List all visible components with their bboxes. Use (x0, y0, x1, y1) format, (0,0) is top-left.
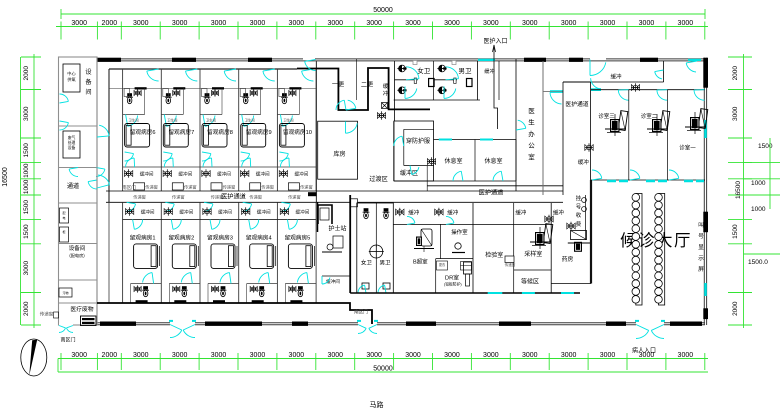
upper cell 6 buffer door arcs (125, 154, 134, 161)
upper cell 8 fan symbol (204, 171, 209, 176)
bottom dimension chain line (58, 358, 708, 360)
svg-text:休息室: 休息室 (484, 157, 502, 165)
doctor office door arc (518, 120, 526, 128)
lower ward cell 4 partition wall (238, 202, 240, 303)
upper ward cell 9 partition walls (238, 69, 240, 191)
bed ward 3 (211, 244, 235, 269)
svg-text:缓冲: 缓冲 (484, 67, 494, 75)
svg-text:3000: 3000 (327, 352, 343, 359)
rest room door arcs (453, 171, 461, 181)
svg-text:3000: 3000 (133, 352, 149, 359)
upper cell 8 top black dash (212, 87, 224, 89)
central oxygen supply box (63, 64, 80, 92)
svg-text:3000: 3000 (639, 20, 655, 27)
power cabinet boxes (60, 208, 69, 223)
svg-text:传递窗: 传递窗 (145, 184, 158, 191)
svg-text:留观病房2: 留观病房2 (168, 234, 194, 242)
bottom exterior wall double line (97, 322, 705, 324)
svg-text:诊室三: 诊室三 (598, 112, 615, 120)
svg-text:传递窗: 传递窗 (505, 262, 516, 267)
medical corridor lower line (106, 201, 563, 203)
svg-text:卫生间: 卫生间 (206, 118, 217, 123)
bottom double door 2 leaves (358, 328, 366, 333)
ward block left inner wall (108, 69, 110, 202)
svg-text:供氧: 供氧 (67, 76, 76, 83)
ppe room inner walls (404, 128, 434, 130)
upper ward cell 6 partition walls (122, 69, 124, 191)
svg-text:卫生间: 卫生间 (283, 118, 294, 123)
svg-text:间: 间 (85, 88, 91, 96)
upper cell 8 toilet fixture (213, 91, 217, 95)
svg-text:缓冲间: 缓冲间 (217, 171, 231, 178)
svg-text:3000: 3000 (327, 20, 343, 27)
upper cell 7 toilet door arc (166, 116, 176, 127)
rest rooms top wall (434, 139, 517, 141)
svg-text:3000: 3000 (522, 352, 538, 359)
svg-text:2000: 2000 (23, 66, 30, 81)
svg-text:设备: 设备 (68, 145, 76, 150)
lower cell 2 ward door arc (173, 220, 181, 230)
svg-text:3000: 3000 (172, 20, 188, 27)
upper cell 8 entry door arc (224, 71, 236, 81)
bottom overall dimension line 50000 (58, 371, 708, 373)
waiting hall chairs column 1 seats (632, 194, 640, 202)
clinic rooms top door arcs (618, 90, 629, 100)
svg-text:传递窗: 传递窗 (249, 194, 262, 201)
svg-text:缓冲: 缓冲 (610, 72, 622, 80)
svg-text:1500.0: 1500.0 (748, 259, 768, 266)
upper cell 7 sink (163, 89, 169, 97)
buffer door arcs diag (407, 216, 415, 223)
medical corridor upper line (106, 190, 563, 192)
svg-text:室: 室 (528, 152, 535, 161)
svg-text:叫: 叫 (698, 221, 704, 229)
transition zone right wall (393, 121, 395, 181)
operation room items (455, 243, 461, 249)
upper ward cell 10 partition walls (276, 69, 278, 191)
lower cell 4 buffer door arcs (243, 204, 252, 211)
svg-text:号: 号 (576, 204, 582, 211)
waiting hall left wall thick (590, 180, 592, 284)
svg-text:3000: 3000 (366, 20, 382, 27)
ppe door arcs (394, 136, 402, 146)
fan below step wall (379, 113, 384, 118)
wc stall lines (395, 79, 418, 81)
svg-text:(铅板防护): (铅板防护) (444, 282, 462, 287)
upper cell 7 transfer window box (172, 183, 183, 190)
svg-text:休息室: 休息室 (444, 157, 462, 165)
svg-text:1000: 1000 (751, 180, 766, 187)
upper cell 7 buffer partition (161, 166, 200, 168)
left wall door arc lower (98, 175, 110, 185)
upper cell 6 entry door arc (147, 71, 159, 81)
svg-text:3000: 3000 (444, 20, 460, 27)
svg-text:处理: 处理 (68, 140, 76, 145)
upper cell 7 fan symbol (165, 171, 170, 176)
wc door arcs upper (406, 67, 419, 79)
upper cell 9 top black dash (251, 87, 263, 89)
ward block right wall (315, 61, 317, 202)
patient wc box (357, 203, 394, 293)
upper cell 9 entry door arc (263, 71, 275, 81)
exam station clinic 3 (618, 111, 628, 131)
svg-text:传递窗: 传递窗 (184, 184, 197, 191)
svg-text:更衣: 更衣 (439, 262, 446, 267)
upper cell 10 top black dash (289, 87, 301, 89)
svg-text:冲: 冲 (383, 90, 389, 98)
svg-text:配: 配 (62, 210, 65, 215)
lower ward cell 5 partition wall (276, 202, 278, 303)
svg-text:二更: 二更 (361, 82, 373, 89)
upper cell 10 buffer partition (277, 166, 316, 168)
fans diag buffer (398, 210, 403, 215)
last lower cell right partition (315, 202, 317, 303)
right dimension chain line (743, 54, 745, 328)
svg-text:3000: 3000 (289, 352, 305, 359)
svg-text:3000: 3000 (23, 261, 30, 276)
exam station clinic 2 (660, 111, 670, 131)
svg-text:3000: 3000 (561, 20, 577, 27)
dr room left wall (435, 259, 437, 293)
upper cell 10 transfer window box (288, 183, 299, 190)
svg-text:留观病房5: 留观病房5 (284, 234, 310, 242)
svg-text:3000: 3000 (133, 20, 149, 27)
storeroom walls (318, 121, 358, 179)
svg-text:3000: 3000 (23, 106, 30, 121)
svg-text:办: 办 (528, 129, 535, 138)
bottom wall pier fills (100, 322, 136, 326)
clinic corridor door leaf (591, 88, 601, 90)
svg-text:缓冲间: 缓冲间 (141, 209, 155, 216)
annex south door (59, 323, 73, 326)
lower ward cell 2 partition wall (160, 202, 162, 303)
lower cell 4 ward door arc (250, 220, 258, 230)
upper cell 10 toilet partition (277, 114, 299, 116)
svg-text:3000: 3000 (561, 352, 577, 359)
lower cell 5 bottom black dash (290, 300, 302, 302)
svg-text:缓冲: 缓冲 (447, 209, 459, 217)
thin wall right of wards (356, 59, 358, 100)
svg-text:缓冲间: 缓冲间 (218, 209, 232, 216)
bed ward 2 (172, 244, 196, 269)
svg-text:3000: 3000 (211, 352, 227, 359)
corridor black pier at ward block corner (308, 192, 317, 196)
svg-text:公: 公 (528, 143, 535, 150)
svg-text:中心: 中心 (67, 70, 76, 77)
lower cell 5 ward door arc (289, 220, 297, 230)
clinic partition x628 (628, 90, 630, 180)
medical waste container (81, 316, 97, 326)
svg-text:缓冲: 缓冲 (553, 209, 565, 217)
svg-text:缓冲间: 缓冲间 (179, 209, 193, 216)
upper cell 6 transfer window box (134, 183, 145, 190)
svg-text:50000: 50000 (373, 366, 393, 373)
svg-text:1500: 1500 (23, 200, 30, 215)
svg-text:废气: 废气 (68, 135, 76, 140)
exam station clinic 1 (698, 109, 708, 129)
lower cell 1 ward door arc (134, 220, 142, 230)
lower cell 5 toilet partition (285, 283, 316, 285)
upper cell 9 buffer door arcs (241, 154, 250, 161)
svg-text:留观病房8: 留观病房8 (207, 128, 233, 136)
svg-text:留观病房4: 留观病房4 (246, 234, 272, 242)
bed ward 8 (202, 124, 227, 148)
b-ultrasound room wall (440, 224, 442, 258)
main block left wall (96, 57, 98, 324)
left wall door arc upper (99, 125, 109, 136)
upper cell 10 buffer door arcs (279, 154, 288, 161)
lower cell 5 toilet fixture (290, 287, 294, 291)
right wall window cyan dash (704, 120, 707, 138)
clinic partition x590 (590, 82, 592, 180)
bed ward 2 side table (197, 246, 199, 266)
svg-text:医护通道: 医护通道 (479, 189, 504, 197)
upper cell 9 toilet partition (239, 114, 261, 116)
lower cell 1 buffer partition (123, 219, 162, 221)
ppe room outer box (394, 121, 434, 181)
upper cell 7 top black dash (173, 87, 185, 89)
top exterior wall double line (97, 58, 705, 60)
upper cell 7 entry door arc (186, 71, 198, 81)
ward block inner top line (109, 68, 297, 70)
waiting hall chairs column 2 seats (655, 194, 663, 202)
lower cell 4 buffer partition (239, 219, 278, 221)
upper cell 10 sink (279, 89, 285, 97)
svg-text:通道: 通道 (67, 182, 79, 190)
lower cell 2 bottom black dash (174, 300, 186, 302)
svg-text:留观病房6: 留观病房6 (130, 128, 156, 136)
second equipment box (63, 131, 80, 158)
svg-text:医护通道: 医护通道 (565, 100, 588, 108)
staff wc area bottom wall (394, 99, 480, 101)
small x-box fan at buffer (382, 103, 388, 109)
corridor buffer cross wall (543, 91, 563, 93)
svg-text:1000: 1000 (23, 163, 30, 178)
top overall dimension line 50000 (61, 13, 705, 15)
annex double door to passage (69, 169, 78, 176)
svg-text:留观病房7: 留观病房7 (168, 128, 194, 136)
upper cell 6 buffer partition (123, 166, 162, 168)
lower cell 5 toilet door arc (297, 273, 307, 283)
door arc top wall near ward block (303, 57, 315, 60)
upper cell 7 toilet partition (161, 114, 183, 116)
lower cell 1 toilet partition (131, 283, 162, 285)
svg-text:16500: 16500 (2, 167, 9, 187)
lower cell 1 buffer door arcs (127, 204, 136, 211)
svg-text:1500: 1500 (23, 143, 30, 158)
svg-text:1000: 1000 (751, 206, 766, 213)
svg-text:设: 设 (85, 68, 91, 76)
upper cell 6 sink (124, 89, 130, 97)
svg-text:示: 示 (698, 255, 704, 262)
lower cell 1 bottom black dash (136, 300, 148, 302)
upper cell 9 buffer partition (239, 166, 278, 168)
rest room partition (474, 140, 476, 182)
door arcs at change rooms bottom (336, 100, 344, 110)
svg-text:女卫: 女卫 (361, 259, 373, 267)
upper cell 6 toilet partition (123, 114, 145, 116)
svg-text:缓冲: 缓冲 (515, 209, 527, 217)
svg-text:3000: 3000 (483, 352, 499, 359)
upper cell 6 fan symbol (126, 171, 131, 176)
ward block bottom thick wall (97, 303, 372, 324)
last upper cell right partition (315, 69, 317, 191)
north arrow compass (21, 339, 47, 376)
svg-text:南区门: 南区门 (60, 337, 75, 344)
upper cell 8 toilet partition (200, 114, 222, 116)
patient wc toilets (364, 212, 369, 219)
upper ward cell 8 partition walls (199, 69, 201, 191)
svg-text:医护通道: 医护通道 (221, 192, 246, 200)
svg-text:诊室二: 诊室二 (641, 112, 658, 120)
wall between op and lab (472, 203, 474, 293)
bed ward 6 (125, 124, 150, 148)
wc urinals (429, 79, 435, 87)
upper cell 7 buffer door arcs (163, 154, 172, 161)
upper cell 9 fan symbol (242, 171, 247, 176)
corridor buffer door leaf (550, 90, 563, 92)
transfer box at nurse corner (351, 199, 358, 207)
svg-text:3000: 3000 (71, 352, 87, 359)
rest rooms bottom wall (394, 180, 516, 182)
svg-text:医护入口: 医护入口 (483, 37, 507, 45)
svg-text:男卫: 男卫 (459, 67, 473, 75)
svg-text:3000: 3000 (600, 20, 616, 27)
upper cell 10 fan symbol (281, 171, 286, 176)
diag block bottom wall (350, 292, 580, 294)
registration desk wall (585, 195, 587, 240)
corridor door arc big (590, 57, 606, 60)
upper cell 7 toilet fixture (174, 91, 178, 95)
lower cell 2 toilet fixture (174, 287, 178, 291)
right wall pier fills (703, 212, 708, 233)
svg-text:女卫: 女卫 (417, 66, 431, 75)
clinic bottom corner door arcs (592, 170, 602, 178)
nurse area chair (333, 236, 343, 248)
lower cell 4 bottom black dash (252, 300, 264, 302)
upper cell 8 toilet door arc (205, 116, 215, 127)
svg-text:一更: 一更 (332, 82, 344, 89)
svg-text:采样室: 采样室 (524, 250, 542, 258)
svg-text:3000: 3000 (444, 352, 460, 359)
fan on wall y82 (633, 85, 638, 90)
svg-text:缓冲间: 缓冲间 (295, 171, 309, 178)
top right partition x663 (663, 61, 665, 82)
diag block bottom window dashes (488, 292, 503, 294)
bed ward 4 side table (275, 246, 277, 266)
right outer dimension line (769, 138, 771, 209)
svg-text:男卫: 男卫 (379, 260, 391, 267)
upper cell 10 toilet door arc (283, 116, 293, 127)
left dimension chain line (33, 54, 35, 328)
rest rooms window dashes (439, 139, 452, 141)
top wall pier fills (97, 58, 121, 62)
bed ward 10 (279, 124, 304, 148)
svg-text:2000: 2000 (102, 352, 118, 359)
svg-text:3000: 3000 (211, 20, 227, 27)
svg-text:3000: 3000 (172, 352, 188, 359)
diagnostic block top buffer strip wall (393, 223, 473, 225)
passage door arcs (88, 182, 97, 189)
diag strip walls right part (473, 223, 514, 225)
svg-text:缓冲间: 缓冲间 (256, 171, 270, 178)
svg-text:留观病房10: 留观病房10 (283, 128, 312, 136)
pharmacy bottom wall (551, 283, 591, 285)
ppe fan symbol (429, 159, 434, 164)
svg-text:3000: 3000 (678, 20, 694, 27)
svg-text:3000: 3000 (600, 352, 616, 359)
lower cell 3 toilet partition (208, 283, 239, 285)
svg-text:缓冲: 缓冲 (578, 158, 590, 166)
upper cell 6 toilet fixture (136, 91, 140, 95)
lab lockers box (461, 262, 472, 271)
svg-text:B超室: B超室 (413, 257, 428, 265)
svg-text:电: 电 (62, 215, 65, 220)
svg-text:留观病房1: 留观病房1 (130, 234, 156, 242)
upper ward cells shelf line (109, 88, 316, 90)
svg-text:1500: 1500 (732, 224, 739, 239)
lower cell 5 fan symbol (282, 209, 287, 214)
bottom double door 1 leaves (170, 330, 182, 338)
svg-text:南区门: 南区门 (122, 184, 136, 191)
lower ward cell 3 partition wall (199, 202, 201, 303)
svg-text:屏: 屏 (698, 266, 704, 273)
vertical corridor wall x563 (562, 82, 564, 195)
annex door arc upper (60, 94, 69, 101)
svg-text:缓: 缓 (383, 82, 389, 90)
svg-text:马路: 马路 (370, 400, 384, 409)
upper cell 10 toilet fixture (290, 91, 294, 95)
bed ward 1 side table (159, 246, 161, 266)
waiting area wall (514, 269, 552, 271)
lower cell 2 toilet partition (169, 283, 200, 285)
svg-text:护士站: 护士站 (328, 225, 346, 233)
svg-text:3000: 3000 (483, 20, 499, 27)
wall sampling right (550, 203, 552, 293)
staff wc left wall (394, 61, 396, 121)
svg-text:传递窗: 传递窗 (288, 194, 301, 201)
bottom wall door openings (170, 321, 195, 326)
svg-text:传递窗: 传递窗 (40, 311, 54, 318)
bed ward 5 (288, 244, 312, 269)
svg-text:卫生间: 卫生间 (245, 118, 256, 123)
svg-text:缓冲: 缓冲 (408, 209, 420, 217)
svg-text:2000: 2000 (102, 20, 118, 27)
svg-text:传递窗: 传递窗 (223, 184, 236, 191)
wall lab right (513, 203, 515, 293)
svg-text:生: 生 (528, 118, 535, 127)
lower ward cell 1 partition wall (122, 202, 124, 303)
upper cell 8 buffer door arcs (202, 154, 211, 161)
svg-text:留观病房9: 留观病房9 (246, 128, 272, 136)
waiting hall chairs column 1 strip (636, 194, 642, 306)
lower cell 1 fan symbol (127, 209, 132, 214)
staff wc partitions (433, 61, 435, 100)
svg-text:留观病房3: 留观病房3 (207, 234, 233, 242)
bed ward 1 (134, 244, 158, 269)
upper cell 9 transfer window box (250, 183, 261, 190)
patient entrance double door leaves (636, 330, 649, 338)
patient wc door arcs (358, 285, 365, 293)
svg-text:2000: 2000 (732, 66, 739, 81)
lower cell 4 toilet partition (247, 283, 278, 285)
svg-text:传递窗: 传递窗 (172, 194, 185, 201)
svg-text:3000: 3000 (250, 352, 266, 359)
lower cell 2 toilet door arc (181, 273, 191, 283)
svg-text:3000: 3000 (405, 352, 421, 359)
svg-text:3000: 3000 (289, 20, 305, 27)
svg-text:缓冲间: 缓冲间 (257, 209, 271, 216)
